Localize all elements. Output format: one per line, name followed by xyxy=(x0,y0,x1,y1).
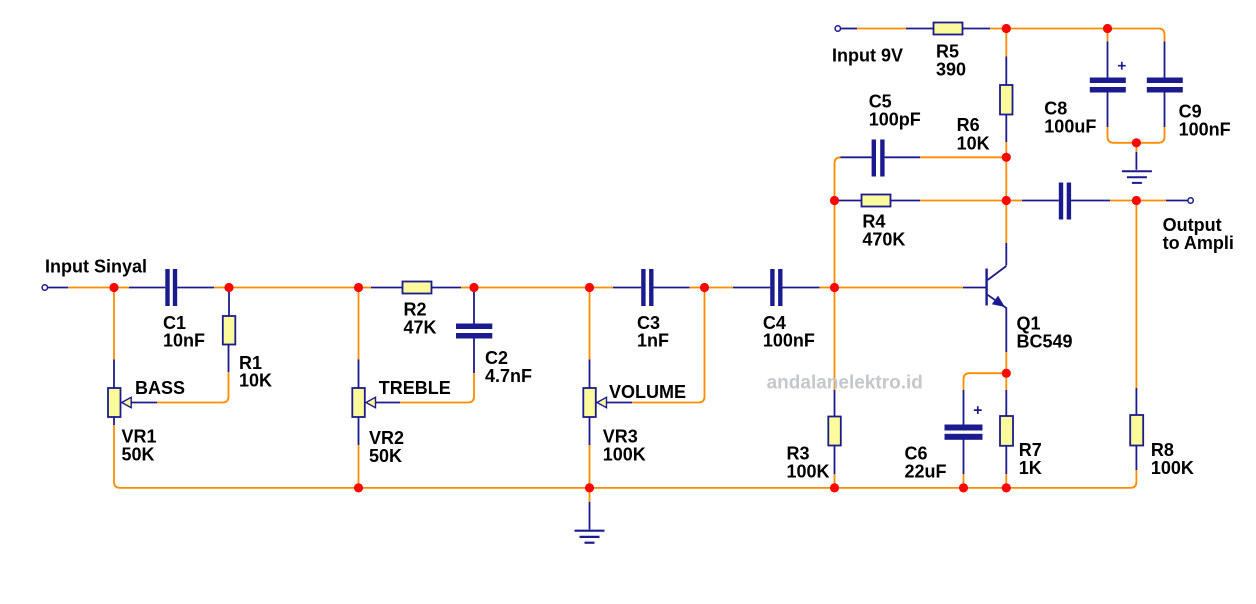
svg-text:C9: C9 xyxy=(1179,102,1202,122)
svg-text:100nF: 100nF xyxy=(1179,120,1231,140)
rail junction R3 xyxy=(830,483,839,492)
label C1 value xyxy=(163,313,205,351)
label Input Sinyal xyxy=(45,257,147,277)
label VR1 value xyxy=(122,427,157,465)
label Output to Ampli xyxy=(1163,215,1234,253)
terminal input sinyal port xyxy=(42,285,47,290)
svg-text:to Ampli: to Ampli xyxy=(1163,233,1234,253)
wire R2 right to node D xyxy=(432,287,475,289)
wire node N to output port xyxy=(1136,200,1187,202)
svg-text:100K: 100K xyxy=(787,462,830,482)
label R2 value xyxy=(404,299,437,337)
wire BASS wiper to R1 bottom xyxy=(131,345,228,403)
wire R5 right to node H xyxy=(963,28,1007,30)
label C5 value xyxy=(869,92,921,130)
wire node B to node C xyxy=(229,287,359,289)
label R4 value xyxy=(862,211,905,249)
svg-text:R3: R3 xyxy=(787,444,810,464)
resistor R4 xyxy=(862,195,891,207)
ground G1 (below VR3) xyxy=(575,531,605,543)
wire R1 top to node B xyxy=(228,288,230,317)
capacitor C7 xyxy=(1059,183,1071,220)
node C junction xyxy=(354,283,363,292)
svg-text:C8: C8 xyxy=(1044,99,1067,119)
wire VR3 bottom to rail xyxy=(589,417,591,488)
wire C5 right to node L xyxy=(885,156,1007,158)
rail junction VR3 xyxy=(585,483,594,492)
svg-text:BASS: BASS xyxy=(135,378,185,398)
label VR2 value xyxy=(369,428,404,466)
wire C9 bottom to node K xyxy=(1136,93,1164,143)
svg-text:50K: 50K xyxy=(122,445,155,465)
svg-text:100K: 100K xyxy=(603,445,646,465)
wire node E rail to ground G1 stem xyxy=(589,488,591,530)
wire VOLUME wiper to node F xyxy=(607,288,705,403)
label R6 value xyxy=(957,115,990,154)
wire node G to Q1 base xyxy=(835,287,986,289)
capacitor C2 xyxy=(456,324,492,339)
transistor Q1 xyxy=(985,266,1006,308)
svg-text:Input 9V: Input 9V xyxy=(832,46,903,66)
wire VR2 bottom to rail xyxy=(358,417,360,488)
wire node E to C3 left xyxy=(590,287,642,289)
label TREBLE xyxy=(379,378,451,398)
wire VR3 top (node E down to pot) xyxy=(589,288,591,389)
svg-text:Input Sinyal: Input Sinyal xyxy=(45,257,147,277)
wire C8 bottom to node K xyxy=(1108,93,1137,143)
wire node H to node J (C8 top) xyxy=(1006,28,1107,30)
svg-text:VR1: VR1 xyxy=(122,427,157,447)
wire node P down to R7 top xyxy=(1005,373,1007,416)
wire 9V port to R5 left xyxy=(841,28,934,30)
wire node I to R4 left xyxy=(835,200,862,202)
wire node G down to R3 top xyxy=(834,288,836,417)
svg-text:R6: R6 xyxy=(957,115,980,135)
node P junction xyxy=(1002,369,1011,378)
svg-text:andalanelektro.id: andalanelektro.id xyxy=(767,373,923,394)
svg-text:BC549: BC549 xyxy=(1017,332,1073,352)
terminal input 9V port xyxy=(835,26,840,31)
wire VR1 top (node A down to pot) xyxy=(113,288,115,389)
label R8 value xyxy=(1151,440,1194,478)
svg-text:390: 390 xyxy=(936,59,966,79)
wire node F to C4 left xyxy=(705,287,771,289)
label C2 value xyxy=(485,348,532,386)
label C6 value xyxy=(905,444,947,482)
svg-text:VR3: VR3 xyxy=(603,427,638,447)
label VR3 value xyxy=(603,427,646,465)
svg-text:1K: 1K xyxy=(1019,458,1042,478)
node D junction xyxy=(469,283,478,292)
wire R8 bottom to rail corner xyxy=(1130,446,1136,488)
node E junction xyxy=(585,283,594,292)
svg-text:C6: C6 xyxy=(905,444,928,464)
wire Q1 emitter down to node P xyxy=(1005,308,1007,374)
rail junction C6 xyxy=(959,483,968,492)
wire R7 bottom to rail xyxy=(1005,446,1007,488)
wire node H down to R6 top xyxy=(1005,29,1007,86)
node A junction xyxy=(109,283,118,292)
svg-text:Output: Output xyxy=(1163,215,1222,235)
node H junction xyxy=(1002,24,1011,33)
label C4 value xyxy=(763,313,815,351)
svg-text:10K: 10K xyxy=(239,371,272,391)
resistor R8 xyxy=(1130,415,1143,446)
svg-text:TREBLE: TREBLE xyxy=(379,378,451,398)
wire C3 right to node F xyxy=(654,287,705,289)
node K junction xyxy=(1132,138,1141,147)
node M junction xyxy=(1002,196,1011,205)
wire node L to node M (collector node) xyxy=(1005,157,1007,200)
wire C6 bottom to rail xyxy=(963,440,965,488)
label Q1 value xyxy=(1017,314,1073,352)
label C9 value xyxy=(1179,102,1231,140)
label R5 value xyxy=(936,41,966,79)
wire node D to node E xyxy=(474,287,590,289)
wire node J to C9 top corner xyxy=(1108,29,1165,78)
terminal output port xyxy=(1188,198,1193,203)
svg-text:100uF: 100uF xyxy=(1044,117,1096,137)
capacitor C9 xyxy=(1147,78,1183,93)
resistor R1 xyxy=(223,316,236,345)
wire node P to C6 top (left loop) xyxy=(964,373,1007,424)
wire VR1 bottom to ground rail corner xyxy=(114,417,120,488)
wire R6 bottom to node L xyxy=(1005,115,1007,158)
svg-text:50K: 50K xyxy=(369,446,402,466)
label C3 value xyxy=(637,313,669,351)
capacitor C4 xyxy=(770,269,782,306)
rail junction VR2 xyxy=(354,483,363,492)
resistor R5 xyxy=(934,23,963,35)
resistor R6 xyxy=(1000,85,1013,115)
capacitor C5 xyxy=(872,140,885,177)
wire node C to R2 left xyxy=(359,287,403,289)
wire node N down to R8 top xyxy=(1135,201,1137,416)
wire C8 top lead xyxy=(1107,29,1109,78)
svg-text:100nF: 100nF xyxy=(763,331,815,351)
wire node K to ground G2 stem xyxy=(1135,143,1137,170)
capacitor C1 xyxy=(165,269,177,306)
watermark andalanelektro.id xyxy=(767,373,923,394)
potentiometer VR3 xyxy=(583,388,606,417)
label R7 value xyxy=(1019,440,1042,478)
svg-text:100pF: 100pF xyxy=(869,110,921,130)
node G junction xyxy=(830,283,839,292)
label R3 value xyxy=(787,444,830,482)
svg-text:1nF: 1nF xyxy=(637,331,669,351)
node F junction xyxy=(700,283,709,292)
label R1 value xyxy=(239,353,272,391)
ground G2 (below C8 C9) xyxy=(1122,171,1152,183)
label BASS xyxy=(135,378,185,398)
node B junction xyxy=(224,283,233,292)
capacitor C6 (polarized) xyxy=(945,406,983,440)
node L junction xyxy=(1002,153,1011,162)
wire C2 top to node D xyxy=(473,288,475,324)
wire node M down to Q1 collector xyxy=(1005,201,1007,266)
wire TREBLE wiper to C2 bottom xyxy=(376,339,475,403)
svg-text:VR2: VR2 xyxy=(369,428,404,448)
wire R4 right to node M xyxy=(891,200,1007,202)
label C8 value xyxy=(1044,99,1096,137)
wire C4 right to node G xyxy=(783,287,835,289)
wire VR2 top (node C down to pot) xyxy=(358,288,360,389)
wire C5 left loop to node I (R4 left) xyxy=(835,157,872,200)
wire node M to C7 left xyxy=(1006,200,1059,202)
potentiometer VR1 xyxy=(108,388,131,417)
bottom ground rail xyxy=(120,487,1131,489)
capacitor C3 xyxy=(641,269,653,306)
label VOLUME xyxy=(609,382,686,402)
rail junction R7 xyxy=(1002,483,1011,492)
resistor R3 xyxy=(828,417,841,446)
node I junction xyxy=(830,196,839,205)
resistor R7 xyxy=(1000,416,1013,446)
svg-text:47K: 47K xyxy=(404,317,437,337)
capacitor C8 (polarized) xyxy=(1090,62,1126,93)
wire C1 right to node B xyxy=(177,287,229,289)
svg-text:470K: 470K xyxy=(862,229,905,249)
node N junction xyxy=(1132,196,1141,205)
label Input 9V xyxy=(832,46,903,66)
svg-text:22uF: 22uF xyxy=(905,462,947,482)
svg-text:VOLUME: VOLUME xyxy=(609,382,686,402)
svg-text:Q1: Q1 xyxy=(1017,314,1041,334)
svg-text:10nF: 10nF xyxy=(163,331,205,351)
wire input port to node A xyxy=(48,287,115,289)
svg-text:10K: 10K xyxy=(957,134,990,154)
svg-text:4.7nF: 4.7nF xyxy=(485,366,532,386)
svg-text:100K: 100K xyxy=(1151,458,1194,478)
wire C7 right to node N xyxy=(1071,200,1136,202)
wire R3 bottom to rail xyxy=(834,446,836,488)
wire node A to C1 left xyxy=(114,287,165,289)
resistor R2 xyxy=(403,282,432,294)
node J junction xyxy=(1103,24,1112,33)
potentiometer VR2 xyxy=(352,388,375,417)
wire node I to node G (vertical) xyxy=(834,201,836,288)
